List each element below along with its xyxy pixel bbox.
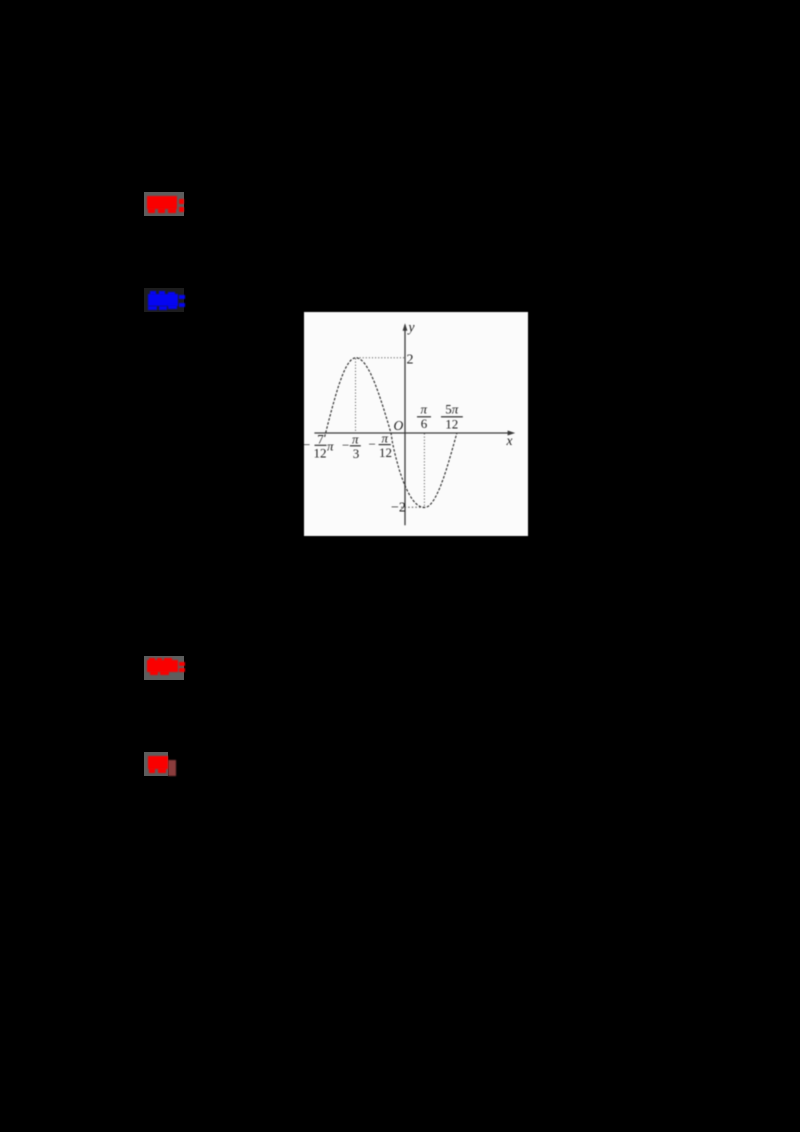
badge short answer (red on gray) [144, 752, 168, 776]
svg-text:3: 3 [353, 446, 360, 461]
svg-text:π: π [421, 402, 428, 417]
svg-text:−: − [369, 437, 376, 452]
svg-text:−2: −2 [391, 501, 406, 516]
y-axis arrowhead [403, 323, 408, 331]
dotted guide: horizontal at max (y=2) [357, 357, 405, 359]
dark red highlight fragment [168, 760, 176, 776]
sine curve y=2sin(2x+phi), dashed [325, 358, 457, 508]
svg-text:12: 12 [379, 445, 392, 460]
svg-text:5π: 5π [445, 402, 459, 417]
svg-text:12: 12 [445, 417, 458, 432]
svg-text:−: − [342, 438, 349, 453]
svg-text:y: y [407, 320, 415, 335]
svg-text:x: x [506, 433, 513, 448]
svg-text:π: π [352, 432, 359, 447]
badge analysis (blue on dark) [144, 288, 184, 312]
svg-text:O: O [394, 418, 404, 433]
graph panel [304, 312, 528, 536]
svg-text:2: 2 [407, 353, 414, 368]
svg-text:−: − [304, 437, 310, 452]
panel background [304, 312, 528, 536]
y-axis [404, 325, 406, 525]
svg-text:12: 12 [314, 446, 327, 461]
dotted guide: vertical at min (x=pi/6) [423, 434, 425, 507]
x-axis arrowhead [508, 431, 516, 436]
dotted guide: horizontal at min (y=-2) [401, 506, 424, 508]
x-axis [314, 432, 512, 434]
svg-text:π: π [327, 439, 334, 454]
svg-text:π: π [382, 431, 389, 446]
badge answer (red on gray) [144, 192, 184, 216]
badge detail (red on gray) [144, 656, 184, 680]
dotted guide: vertical at max (x=-pi/3) [355, 359, 357, 433]
svg-text:6: 6 [421, 416, 428, 431]
svg-text:7: 7 [317, 432, 324, 447]
